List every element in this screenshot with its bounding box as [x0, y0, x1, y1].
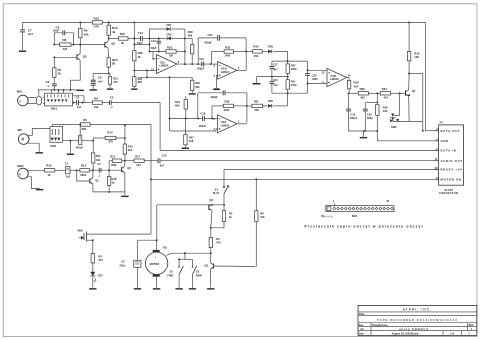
wire AUDIO bus	[160, 160, 439, 162]
svg-text:470: 470	[108, 140, 113, 144]
wire U1B out	[237, 52, 246, 71]
capacitor C3	[93, 162, 122, 177]
wire loop right	[184, 29, 186, 65]
svg-text:Title: Title	[359, 312, 365, 316]
ground	[182, 148, 189, 150]
transistor Q6	[105, 35, 116, 57]
svg-text:2u2: 2u2	[66, 175, 71, 179]
svg-text:SW2: SW2	[391, 125, 397, 129]
resistor R38	[347, 80, 359, 94]
wire motor feed	[156, 205, 158, 250]
svg-text:R4: R4	[98, 254, 102, 258]
ground	[189, 93, 196, 95]
wire	[133, 22, 135, 50]
svg-text:4u7: 4u7	[273, 68, 278, 72]
svg-text:S3: S3	[196, 270, 200, 274]
capacitor C23	[269, 77, 278, 94]
capacitor C14	[128, 31, 150, 45]
wire U1C out	[177, 63, 218, 65]
svg-text:C2: C2	[121, 260, 125, 264]
capacitor C5	[102, 95, 160, 109]
svg-text:Q2: Q2	[209, 198, 213, 202]
wire	[82, 138, 94, 153]
resistor R5	[52, 118, 151, 131]
connector DN1	[43, 90, 73, 111]
title block	[358, 305, 477, 335]
wire GND bus	[348, 130, 439, 141]
resistor R13	[109, 154, 126, 170]
switch S3 REW	[185, 259, 203, 288]
svg-text:300k: 300k	[111, 164, 117, 167]
svg-text:C5: C5	[110, 95, 114, 99]
svg-text:1k: 1k	[112, 180, 115, 184]
svg-text:1M: 1M	[63, 47, 68, 51]
resistor R11	[92, 153, 102, 170]
resistor R33	[212, 45, 248, 64]
svg-text:CR6: CR6	[268, 44, 274, 48]
svg-text:4k: 4k	[48, 173, 52, 177]
svg-text:140k: 140k	[224, 54, 230, 58]
wire	[287, 51, 289, 61]
svg-text:220uF: 220uF	[76, 146, 84, 150]
ground	[89, 288, 96, 290]
ground	[213, 89, 220, 91]
svg-text:4k7: 4k7	[354, 84, 359, 88]
resistor R31	[247, 100, 268, 113]
resistor R20	[107, 58, 118, 74]
ground	[360, 131, 367, 138]
network top wire	[272, 60, 308, 62]
capacitor C2	[119, 240, 141, 288]
capacitor C11	[63, 124, 84, 150]
svg-text:C21: C21	[208, 33, 214, 37]
svg-text:R29: R29	[195, 81, 200, 85]
capacitor C16	[198, 87, 248, 123]
svg-text:1k: 1k	[229, 215, 232, 219]
wire	[108, 38, 119, 40]
svg-text:C17: C17	[273, 63, 278, 67]
svg-text:10k: 10k	[414, 55, 419, 59]
LED CR7	[90, 272, 103, 288]
connector P1	[434, 121, 464, 196]
resistor R41	[286, 77, 297, 94]
svg-text:M1: M1	[163, 246, 167, 250]
svg-text:Q5: Q5	[83, 55, 87, 59]
svg-text:800: 800	[138, 80, 143, 84]
svg-text:10k: 10k	[96, 158, 101, 162]
svg-text:4u7: 4u7	[28, 32, 34, 36]
resistor R17	[125, 154, 158, 167]
resistor R14	[93, 130, 126, 143]
svg-text:Q4: Q4	[127, 166, 131, 170]
resistor R39	[349, 87, 377, 100]
diode CR6	[268, 44, 288, 53]
resistor R24	[175, 96, 188, 119]
ground	[175, 288, 182, 290]
wire U2D out	[347, 78, 349, 81]
svg-text:56k: 56k	[195, 85, 200, 89]
resistor R21	[108, 74, 118, 89]
svg-text:SM1: SM1	[77, 228, 83, 232]
svg-text:25k: 25k	[254, 108, 259, 112]
svg-text:4k7: 4k7	[384, 96, 389, 100]
svg-text:FWD: FWD	[167, 274, 173, 278]
capacitor C12	[158, 153, 167, 167]
svg-text:60k: 60k	[175, 104, 180, 108]
resistor R6	[92, 96, 102, 109]
svg-text:R11: R11	[96, 154, 101, 158]
resistor R23	[150, 45, 185, 57]
connector M2L	[17, 90, 34, 106]
svg-text:DN1: DN1	[51, 107, 57, 111]
svg-text:R5: R5	[83, 118, 87, 122]
pin header 1-18	[322, 200, 394, 218]
svg-text:CR3: CR3	[166, 33, 172, 37]
svg-text:R33: R33	[225, 45, 231, 49]
svg-text:2k: 2k	[58, 72, 62, 76]
ground	[36, 152, 43, 154]
switch S1 PLAY	[213, 170, 230, 206]
svg-text:470: 470	[216, 241, 221, 245]
svg-text:REW: REW	[196, 274, 203, 278]
svg-text:1M: 1M	[169, 54, 174, 58]
svg-text:470: 470	[113, 80, 118, 84]
resistor R18	[107, 170, 117, 192]
svg-text:R15: R15	[128, 145, 133, 149]
ground	[153, 288, 160, 290]
svg-text:4u7: 4u7	[273, 83, 278, 87]
resistor R27	[184, 119, 195, 148]
svg-text:August 29, 2002(Scan): August 29, 2002(Scan)	[392, 333, 419, 336]
svg-text:25k: 25k	[254, 54, 259, 58]
svg-text:LM324: LM324	[330, 77, 339, 81]
wire READY bus	[224, 169, 439, 171]
svg-text:MOTOR ON: MOTOR ON	[441, 177, 462, 181]
svg-text:R6: R6	[94, 96, 98, 100]
svg-text:82: 82	[112, 62, 116, 66]
resistor R45	[407, 22, 419, 74]
svg-text:R35: R35	[253, 44, 259, 48]
svg-text:3k: 3k	[121, 41, 125, 45]
ground	[189, 288, 196, 290]
svg-text:Przelacznik zapis-odczyt w pol: Przelacznik zapis-odczyt w polozeniu odc…	[305, 225, 424, 229]
svg-text:330k: 330k	[291, 67, 297, 71]
svg-text:Q6: Q6	[111, 41, 115, 45]
svg-text:920pF: 920pF	[197, 67, 205, 70]
svg-text:LM324: LM324	[160, 64, 169, 68]
svg-text:SW1: SW1	[50, 144, 56, 148]
svg-text:820p: 820p	[367, 117, 373, 120]
wire U1B pin5	[216, 75, 217, 88]
svg-text:R31: R31	[254, 100, 259, 104]
wire stage link	[80, 44, 104, 46]
svg-text:GND: GND	[441, 139, 449, 143]
capacitor C21	[198, 33, 246, 64]
wire R5 to motor drop	[150, 125, 152, 235]
svg-text:10k: 10k	[94, 105, 99, 109]
svg-text:4k7: 4k7	[360, 96, 365, 100]
svg-text:S1: S1	[215, 187, 219, 191]
wire motor right	[166, 253, 211, 255]
svg-text:R3: R3	[216, 237, 220, 241]
wire	[157, 204, 224, 206]
svg-text:DATA OUT: DATA OUT	[441, 129, 461, 133]
svg-text:AUDIO OUT: AUDIO OUT	[441, 159, 463, 163]
resistor R2	[210, 205, 233, 229]
wire	[409, 74, 424, 132]
motor M1	[145, 246, 167, 288]
resistor R37	[286, 61, 297, 77]
wire	[394, 93, 400, 115]
svg-text:40k: 40k	[84, 32, 89, 36]
capacitor C6	[53, 26, 74, 45]
svg-text:C3: C3	[97, 162, 101, 166]
svg-text:640k: 640k	[224, 109, 230, 112]
svg-text:R12: R12	[81, 163, 87, 167]
op-amp U1C	[151, 52, 180, 74]
svg-text:C25: C25	[367, 113, 372, 117]
svg-text:620pF: 620pF	[204, 40, 212, 44]
wire MOTOR bus	[151, 178, 439, 180]
trimmer SM1	[77, 228, 151, 241]
svg-text:4u7: 4u7	[160, 163, 165, 167]
capacitor C1	[65, 161, 78, 178]
caption text	[305, 225, 424, 229]
svg-text:M8: M8	[18, 128, 22, 132]
svg-text:R23: R23	[167, 45, 173, 49]
svg-text:220u: 220u	[119, 263, 125, 267]
svg-text:920pF: 920pF	[199, 125, 207, 128]
wire Q5 emitter	[70, 80, 80, 90]
svg-text:Q3: Q3	[204, 263, 208, 267]
svg-text:C19: C19	[350, 113, 355, 117]
svg-text:Q7: Q7	[412, 89, 416, 93]
svg-text:R6: R6	[260, 212, 264, 216]
svg-text:R28: R28	[225, 100, 230, 104]
svg-text:LM324: LM324	[221, 123, 230, 127]
svg-text:470: 470	[98, 258, 103, 262]
capacitor C25	[363, 103, 378, 131]
svg-text:ATARI, INC.: ATARI, INC.	[403, 307, 433, 311]
svg-text:R8: R8	[63, 38, 67, 42]
svg-text:4u7: 4u7	[77, 105, 82, 109]
svg-text:CR5: CR5	[268, 99, 274, 103]
wire data out drop	[425, 22, 427, 130]
ground	[90, 89, 97, 91]
wire	[138, 239, 158, 241]
resistor R40	[91, 240, 103, 271]
svg-text:A3: A3	[360, 327, 364, 331]
svg-text:R2: R2	[229, 212, 233, 216]
svg-text:2k7: 2k7	[136, 163, 141, 167]
ground	[107, 88, 113, 90]
svg-text:R27: R27	[189, 136, 194, 140]
resistor R7	[53, 57, 62, 83]
ground	[36, 189, 43, 191]
resistor R28	[211, 100, 247, 120]
wire top rail	[23, 21, 426, 23]
svg-text:R14: R14	[107, 130, 113, 134]
svg-text:Jerzy SOBOLA: Jerzy SOBOLA	[399, 327, 429, 331]
ground	[253, 77, 261, 85]
svg-text:PLAY: PLAY	[213, 191, 220, 195]
svg-text:SM1: SM1	[352, 214, 358, 218]
ground	[131, 88, 137, 90]
svg-text:3k3: 3k3	[128, 148, 133, 152]
svg-text:680k: 680k	[80, 173, 86, 177]
transistor Q4	[122, 161, 132, 192]
svg-text:R24: R24	[175, 100, 180, 104]
svg-text:R16: R16	[94, 17, 100, 21]
svg-text:27k: 27k	[260, 215, 265, 219]
svg-text:P1: P1	[440, 121, 444, 125]
svg-text:4u7: 4u7	[98, 79, 103, 83]
svg-text:R25: R25	[120, 32, 126, 36]
resistor R10	[107, 22, 118, 35]
svg-text:REV: REV	[469, 324, 474, 327]
resistor R15	[123, 124, 133, 160]
wire data-in drop	[159, 103, 161, 151]
svg-text:Draughtsman: Draughtsman	[372, 324, 388, 327]
transistor Q7	[406, 74, 416, 122]
svg-text:R34: R34	[382, 87, 388, 91]
capacitor C9	[91, 73, 110, 89]
svg-text:Q1: Q1	[95, 178, 99, 182]
svg-text:R41: R41	[291, 80, 296, 84]
resistor R3	[209, 228, 221, 254]
transistor Q5	[53, 45, 87, 81]
svg-text:.0033: .0033	[312, 78, 319, 81]
transistor Q2	[209, 198, 214, 228]
ground	[19, 51, 26, 53]
svg-text:7k8: 7k8	[189, 139, 194, 143]
svg-text:C1: C1	[65, 161, 69, 165]
wire mic bus	[38, 89, 77, 91]
svg-text:1 of: 1 of	[450, 333, 454, 336]
svg-text:R19: R19	[46, 163, 52, 167]
resistor R29	[191, 77, 201, 93]
svg-text:M2L: M2L	[17, 90, 23, 94]
svg-text:C23: C23	[273, 78, 278, 82]
svg-text:READY +5V: READY +5V	[441, 168, 463, 172]
op-amp U2A	[213, 115, 239, 133]
svg-text:CR4: CR4	[166, 23, 172, 27]
svg-text:R37: R37	[291, 64, 296, 68]
resistor R19	[44, 163, 65, 176]
svg-text:C12: C12	[162, 153, 167, 157]
svg-text:TAPE RECORDER XC12/XCM12/CA12: TAPE RECORDER XC12/XCM12/CA12	[377, 318, 458, 322]
diode CR3	[150, 33, 185, 41]
svg-text:10k: 10k	[383, 109, 388, 113]
plug symbol	[34, 90, 42, 105]
svg-text:C18: C18	[200, 112, 205, 116]
connector M8	[18, 128, 50, 152]
resistor R34	[376, 87, 405, 100]
svg-text:C13: C13	[151, 39, 156, 43]
svg-text:R17: R17	[135, 154, 140, 158]
resistor R26	[133, 51, 144, 61]
resistor R9	[79, 22, 89, 44]
svg-text:C20: C20	[312, 73, 317, 77]
svg-text:R21: R21	[113, 76, 118, 80]
switch block SW1	[50, 125, 63, 149]
wire DATA IN bus	[160, 149, 439, 151]
capacitor C18	[169, 112, 218, 128]
wire	[376, 93, 378, 103]
resistor R8	[53, 38, 81, 51]
svg-text:56k: 56k	[188, 33, 193, 37]
svg-text:.1: .1	[47, 84, 50, 88]
resistor R42	[376, 105, 389, 131]
wire DATA OUT	[426, 130, 440, 132]
svg-text:C14: C14	[138, 31, 144, 35]
resistor R30	[185, 30, 194, 64]
capacitor C13	[151, 37, 162, 52]
wire bias drop	[169, 77, 171, 131]
resistor R6b	[255, 179, 266, 266]
svg-text:Date: Date	[359, 333, 365, 336]
op-amp U1B	[214, 62, 240, 80]
svg-text:3k: 3k	[138, 55, 142, 59]
svg-text:C4: C4	[76, 95, 80, 99]
network mid wire	[257, 76, 289, 78]
svg-text:330pF: 330pF	[350, 117, 358, 120]
resistor R25	[118, 32, 128, 45]
svg-text:CONNECTOR: CONNECTOR	[439, 192, 458, 195]
wire	[134, 43, 150, 45]
svg-text:C16: C16	[214, 87, 219, 91]
wire U1C pin10	[134, 69, 156, 71]
wire U2A out	[237, 123, 247, 125]
svg-text:680: 680	[82, 127, 87, 131]
wire bias to U2A	[170, 130, 216, 132]
ground	[121, 196, 128, 198]
switch S2 FWD	[167, 252, 185, 288]
resistor R12	[77, 163, 94, 176]
transistor Q3	[204, 253, 256, 288]
svg-text:CR7: CR7	[98, 273, 104, 277]
svg-text:LM324: LM324	[221, 70, 230, 74]
wire	[133, 61, 135, 71]
capacitor C15	[197, 57, 205, 70]
svg-text:920pF: 920pF	[211, 96, 219, 99]
switch SW2 cluster	[390, 114, 423, 130]
ground	[67, 141, 74, 155]
svg-text:R13: R13	[110, 154, 115, 158]
svg-text:4k: 4k	[112, 30, 116, 34]
ground	[207, 288, 214, 290]
svg-text:470: 470	[94, 25, 99, 29]
svg-text:R39: R39	[360, 87, 366, 91]
svg-text:S2: S2	[170, 270, 174, 274]
transistor Q1	[77, 170, 100, 192]
resistor R16	[92, 17, 102, 29]
svg-text:R18: R18	[112, 177, 117, 181]
svg-text:Size: Size	[359, 324, 364, 327]
connector M1R	[17, 164, 44, 189]
capacitor C3	[46, 80, 57, 90]
capacitor C17	[269, 61, 278, 77]
wire loop left	[149, 29, 151, 52]
svg-text:MOTOR: MOTOR	[150, 262, 160, 266]
capacitor C20	[305, 61, 318, 93]
ground wire	[93, 191, 125, 195]
svg-text:DATA IN: DATA IN	[441, 149, 457, 153]
capacitor C19	[346, 93, 358, 131]
capacitor C4	[73, 95, 93, 109]
op-amp U2D	[308, 68, 352, 86]
svg-text:C15: C15	[199, 57, 204, 61]
